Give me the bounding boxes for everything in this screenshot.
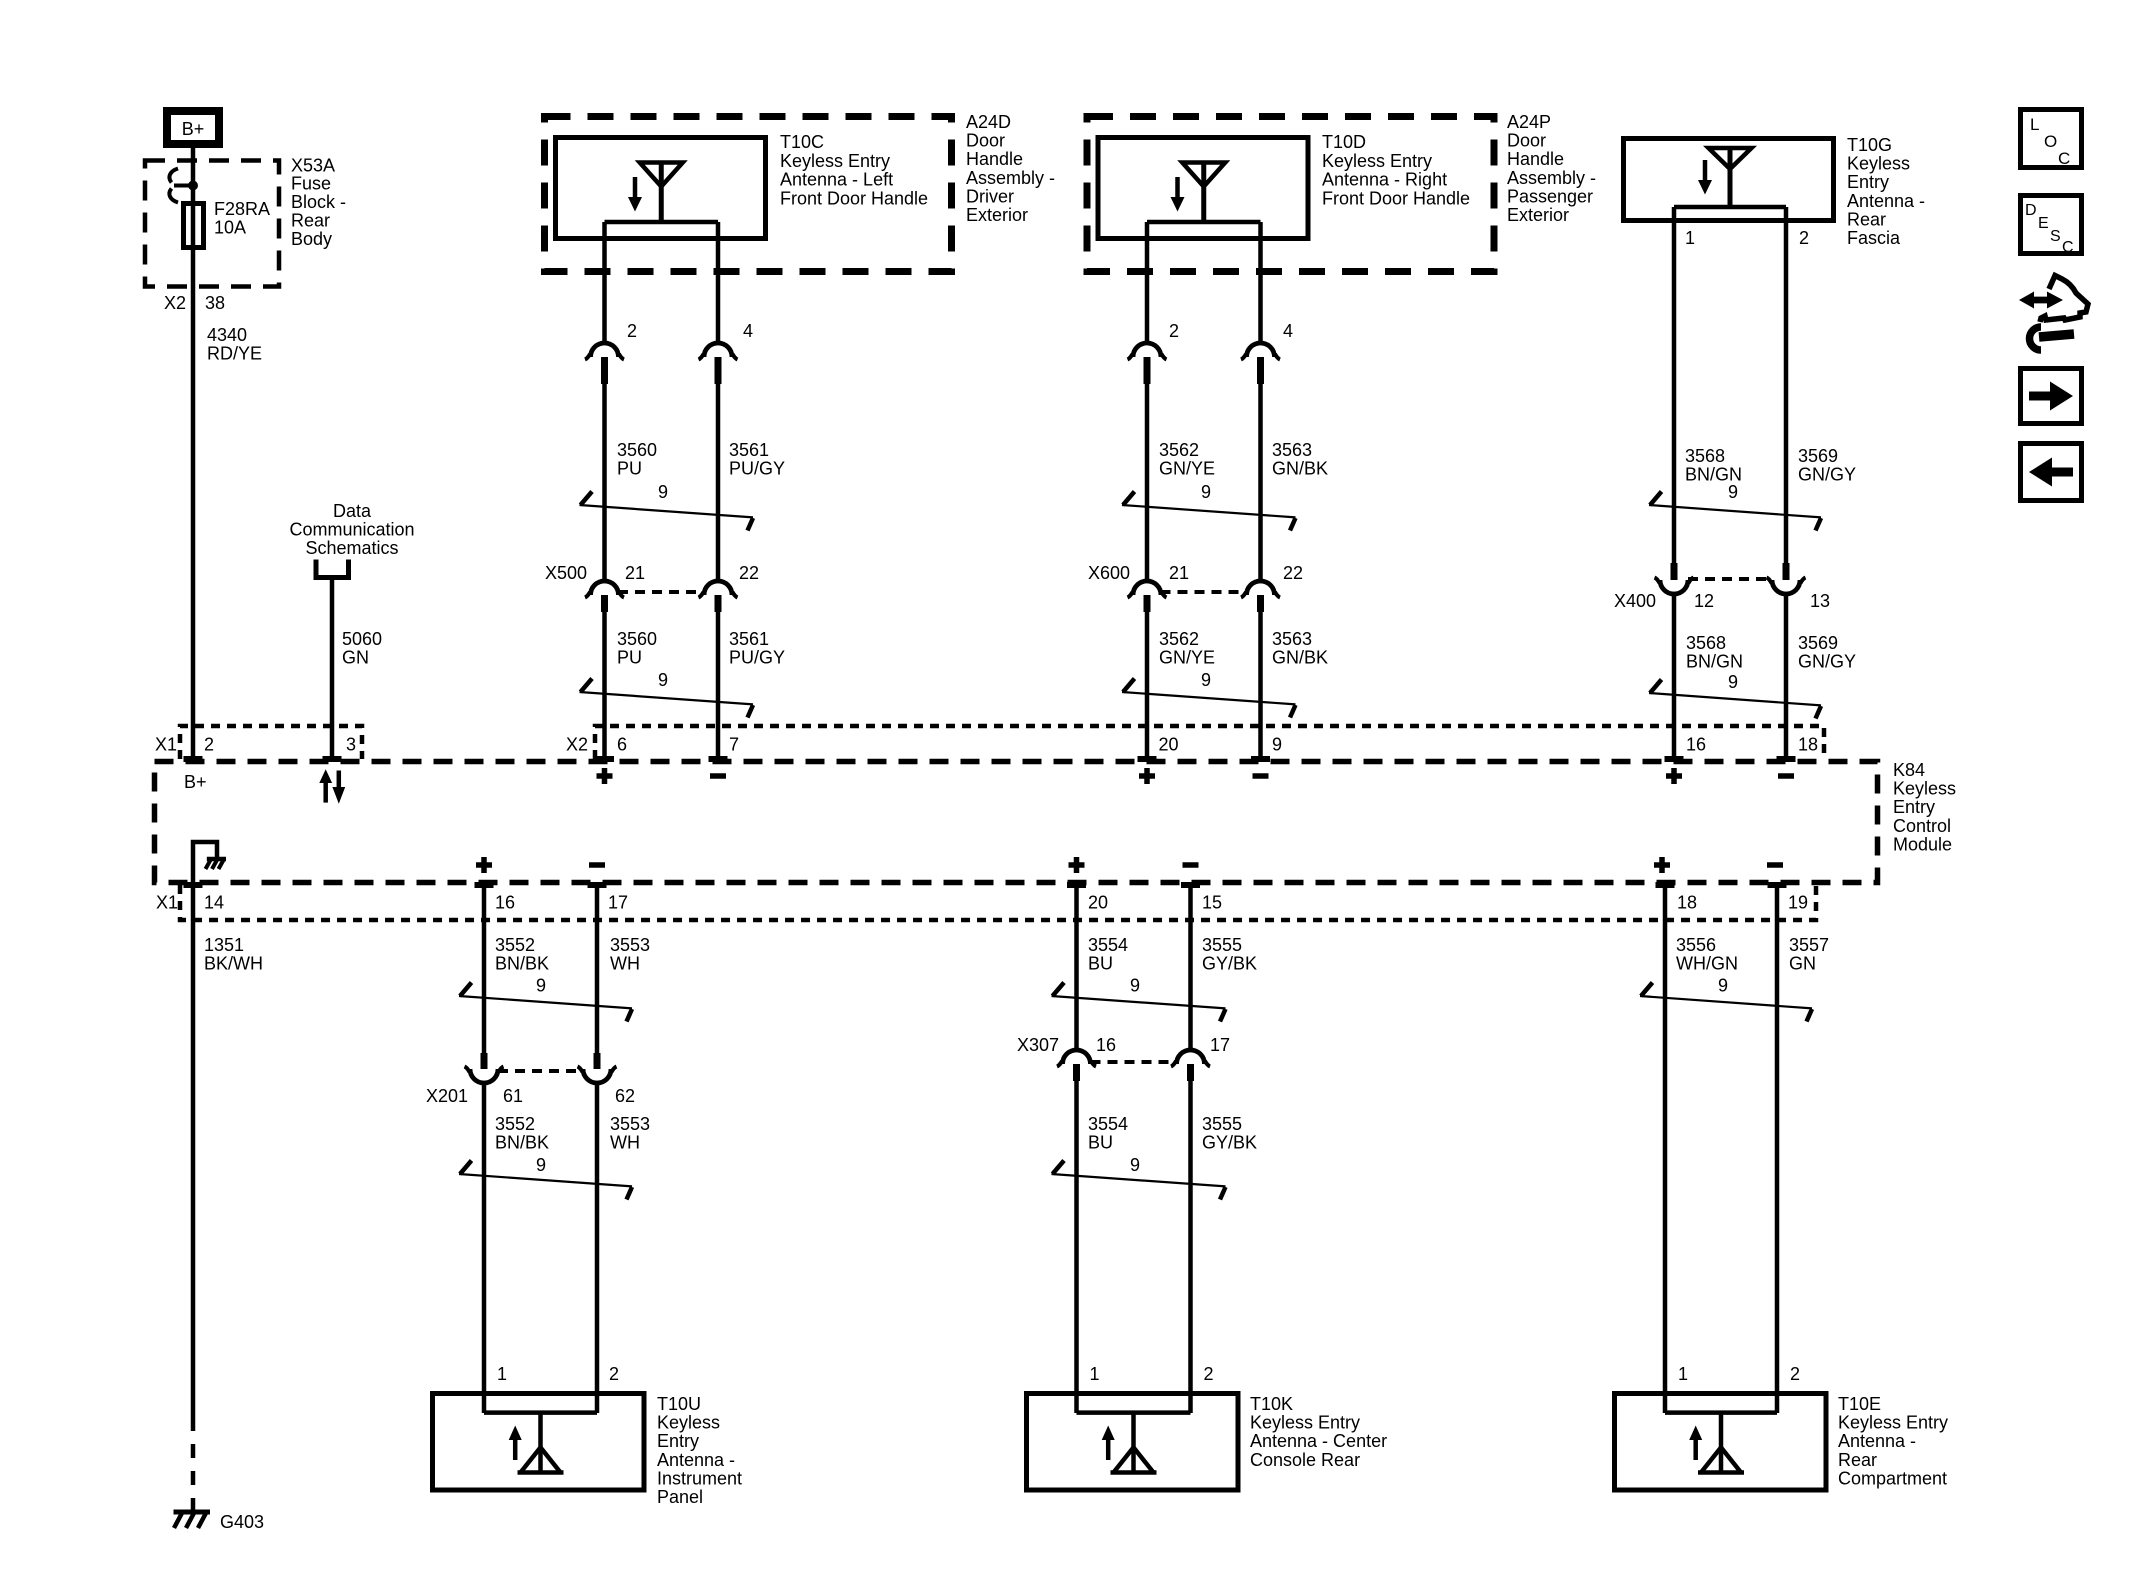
- wire 1351 BK/WH from module pin 14: [193, 885, 263, 1512]
- svg-text:22: 22: [739, 563, 759, 583]
- svg-text:T10E: T10E: [1838, 1394, 1881, 1414]
- svg-text:3555: 3555: [1202, 1114, 1242, 1134]
- svg-text:Communication: Communication: [289, 520, 414, 540]
- keyless entry antenna T10K center console rear: [1027, 1394, 1388, 1491]
- battery feed B+: [167, 111, 219, 144]
- door handle assembly A24P dashed box: [1087, 112, 1596, 272]
- svg-text:62: 62: [615, 1086, 635, 1106]
- svg-text:1: 1: [1678, 1364, 1688, 1384]
- T10K pin labels 1 and 2: [1090, 1364, 1214, 1384]
- svg-text:Console Rear: Console Rear: [1250, 1450, 1360, 1470]
- wire from T10C pin 4: [716, 222, 721, 343]
- wire 3560 PU upper segment: [605, 384, 658, 581]
- svg-text:3568: 3568: [1685, 446, 1725, 466]
- svg-text:17: 17: [608, 893, 628, 913]
- svg-text:21: 21: [625, 563, 645, 583]
- svg-text:9: 9: [1728, 482, 1738, 502]
- module antenna driver polarity labels top row: [597, 768, 1795, 784]
- svg-text:Block -: Block -: [291, 192, 346, 212]
- svg-text:GN/GY: GN/GY: [1798, 652, 1856, 672]
- svg-text:1: 1: [497, 1364, 507, 1384]
- twisted pair marker upper T10K pair: [1052, 975, 1226, 1021]
- svg-text:3560: 3560: [617, 629, 657, 649]
- T10D pin labels 2 and 4: [1169, 321, 1293, 341]
- svg-text:PU/GY: PU/GY: [729, 459, 785, 479]
- svg-text:Front Door Handle: Front Door Handle: [1322, 188, 1470, 208]
- twisted pair marker lower T10U pair: [459, 1155, 632, 1200]
- svg-text:Fuse: Fuse: [291, 174, 331, 194]
- svg-text:Keyless Entry: Keyless Entry: [1250, 1413, 1360, 1433]
- svg-text:14: 14: [204, 893, 224, 913]
- svg-text:9: 9: [1130, 975, 1140, 995]
- svg-text:Front Door Handle: Front Door Handle: [780, 188, 928, 208]
- module internal ground path: [193, 842, 226, 885]
- svg-text:7: 7: [729, 735, 739, 755]
- module connector X2 top strip: [566, 726, 1824, 759]
- svg-text:Assembly -: Assembly -: [966, 168, 1055, 188]
- svg-text:Passenger: Passenger: [1507, 186, 1593, 206]
- svg-text:3: 3: [346, 735, 356, 755]
- svg-text:3555: 3555: [1202, 935, 1242, 955]
- twisted pair marker upper T10G: [1649, 482, 1821, 531]
- svg-text:PU: PU: [617, 459, 642, 479]
- svg-text:X500: X500: [545, 563, 587, 583]
- module internal B+ label: [184, 772, 207, 792]
- svg-text:GN/GY: GN/GY: [1798, 465, 1856, 485]
- svg-text:9: 9: [536, 1155, 546, 1175]
- svg-text:Antenna - Left: Antenna - Left: [780, 170, 893, 190]
- svg-text:PU: PU: [617, 648, 642, 668]
- svg-text:20: 20: [1159, 735, 1179, 755]
- svg-text:2: 2: [204, 735, 214, 755]
- svg-text:BK/WH: BK/WH: [204, 954, 263, 974]
- svg-text:BN/BK: BN/BK: [495, 954, 549, 974]
- svg-text:Door: Door: [1507, 131, 1546, 151]
- svg-text:9: 9: [1201, 482, 1211, 502]
- svg-text:3561: 3561: [729, 440, 769, 460]
- fuse block X53A dashed box: [145, 155, 346, 286]
- svg-text:9: 9: [658, 482, 668, 502]
- T10G pin labels 1 and 2: [1685, 228, 1809, 248]
- svg-text:Rear: Rear: [1847, 209, 1886, 229]
- svg-text:Rear: Rear: [1838, 1450, 1877, 1470]
- sidebar icon back arrow: [2021, 444, 2082, 501]
- wire 3556 WH/GN from module pin 18: [1665, 885, 1738, 1413]
- svg-text:Handle: Handle: [966, 149, 1023, 169]
- sidebar icon LOC: [2021, 110, 2082, 169]
- wire 3554 BU upper segment from module pin 20: [1077, 885, 1129, 1052]
- svg-text:D: D: [2025, 202, 2037, 219]
- wire 3561 PU/GY upper segment: [718, 384, 785, 581]
- svg-text:Antenna -: Antenna -: [657, 1450, 735, 1470]
- svg-text:22: 22: [1283, 563, 1303, 583]
- T10U pin labels 1 and 2: [497, 1364, 619, 1384]
- svg-text:Fascia: Fascia: [1847, 228, 1901, 248]
- svg-text:2: 2: [1169, 321, 1179, 341]
- svg-text:X1: X1: [156, 893, 178, 913]
- svg-text:C: C: [2062, 239, 2074, 256]
- svg-text:F28RA: F28RA: [214, 199, 270, 219]
- wire 3557 GN from module pin 19: [1777, 885, 1829, 1413]
- twisted pair marker lower T10D: [1122, 670, 1296, 718]
- svg-text:9: 9: [1201, 670, 1211, 690]
- svg-text:3552: 3552: [495, 1114, 535, 1134]
- svg-text:PU/GY: PU/GY: [729, 648, 785, 668]
- svg-text:3562: 3562: [1159, 440, 1199, 460]
- inline connector X400 pins 12 13: [1614, 563, 1830, 611]
- svg-text:X2: X2: [164, 293, 186, 313]
- svg-text:3553: 3553: [610, 935, 650, 955]
- twisted pair marker T10E pair: [1640, 975, 1812, 1021]
- wire 3563 GN/BK lower segment to module pin 9: [1261, 612, 1329, 759]
- svg-text:19: 19: [1788, 893, 1808, 913]
- svg-text:Entry: Entry: [1847, 172, 1889, 192]
- svg-text:Keyless Entry: Keyless Entry: [1322, 151, 1432, 171]
- sidebar icon DESC: [2021, 196, 2082, 257]
- svg-text:2: 2: [1799, 228, 1809, 248]
- svg-text:GN/BK: GN/BK: [1272, 648, 1328, 668]
- keyless entry antenna T10U instrument panel: [433, 1394, 743, 1508]
- svg-text:Body: Body: [291, 229, 332, 249]
- wire 3562 GN/YE lower segment to module pin 20: [1147, 612, 1215, 759]
- svg-text:3562: 3562: [1159, 629, 1199, 649]
- svg-text:Instrument: Instrument: [657, 1468, 742, 1488]
- keyless entry antenna T10E rear compartment: [1615, 1394, 1949, 1491]
- inline connector X600 pins 21 22: [1088, 563, 1303, 612]
- T10E pin labels 1 and 2: [1678, 1364, 1800, 1384]
- svg-text:RD/YE: RD/YE: [207, 344, 262, 364]
- svg-text:G403: G403: [220, 1512, 264, 1532]
- svg-text:3556: 3556: [1676, 935, 1716, 955]
- svg-text:16: 16: [1096, 1035, 1116, 1055]
- svg-text:3552: 3552: [495, 935, 535, 955]
- svg-text:WH: WH: [610, 954, 640, 974]
- svg-text:3561: 3561: [729, 629, 769, 649]
- svg-text:A24P: A24P: [1507, 112, 1551, 132]
- svg-text:BN/GN: BN/GN: [1686, 652, 1743, 672]
- wire 3555 GY/BK lower segment: [1191, 1081, 1258, 1413]
- svg-text:Module: Module: [1893, 834, 1952, 854]
- svg-text:21: 21: [1169, 563, 1189, 583]
- module pin terminal feet on boundaries: [184, 759, 1796, 885]
- svg-text:GN/YE: GN/YE: [1159, 648, 1215, 668]
- svg-text:Antenna - Center: Antenna - Center: [1250, 1431, 1387, 1451]
- T10C pin 2 terminal: [585, 343, 624, 384]
- svg-text:BU: BU: [1088, 1133, 1113, 1153]
- svg-text:4340: 4340: [207, 325, 247, 345]
- svg-text:3569: 3569: [1798, 446, 1838, 466]
- twisted pair marker lower T10C: [580, 670, 754, 718]
- keyless entry antenna T10D: [1098, 132, 1470, 238]
- svg-text:3569: 3569: [1798, 633, 1838, 653]
- svg-text:B+: B+: [182, 119, 205, 139]
- svg-text:9: 9: [536, 975, 546, 995]
- svg-text:GN: GN: [342, 648, 369, 668]
- svg-text:Keyless: Keyless: [1893, 779, 1956, 799]
- svg-text:X1: X1: [155, 735, 177, 755]
- svg-text:O: O: [2044, 132, 2057, 151]
- svg-text:13: 13: [1810, 591, 1830, 611]
- svg-text:17: 17: [1210, 1035, 1230, 1055]
- svg-text:B+: B+: [184, 772, 207, 792]
- svg-text:BN/BK: BN/BK: [495, 1133, 549, 1153]
- wire 3560 PU lower segment to module pin 6: [605, 612, 658, 759]
- svg-text:9: 9: [1272, 735, 1282, 755]
- svg-text:X53A: X53A: [291, 155, 335, 175]
- wire 3554 BU lower segment: [1077, 1081, 1129, 1413]
- svg-text:S: S: [2050, 228, 2061, 245]
- twisted pair marker lower T10K pair: [1052, 1155, 1226, 1200]
- inline connector X201 pins 61 62: [426, 1053, 635, 1106]
- svg-text:WH: WH: [610, 1133, 640, 1153]
- wire 3562 GN/YE upper segment: [1147, 384, 1215, 581]
- svg-text:Exterior: Exterior: [1507, 205, 1569, 225]
- svg-text:Assembly -: Assembly -: [1507, 168, 1596, 188]
- svg-text:T10U: T10U: [657, 1394, 701, 1414]
- twisted pair marker lower T10G: [1649, 672, 1821, 719]
- svg-text:GY/BK: GY/BK: [1202, 1133, 1257, 1153]
- wire from T10D pin 4: [1258, 222, 1263, 343]
- svg-text:Antenna -: Antenna -: [1838, 1431, 1916, 1451]
- svg-text:Entry: Entry: [1893, 797, 1935, 817]
- svg-text:Antenna - Right: Antenna - Right: [1322, 170, 1447, 190]
- svg-text:Rear: Rear: [291, 211, 330, 231]
- svg-text:K84: K84: [1893, 760, 1925, 780]
- svg-text:3563: 3563: [1272, 629, 1312, 649]
- wire 5060 GN to module pin 3: [332, 578, 382, 760]
- svg-text:Keyless Entry: Keyless Entry: [780, 151, 890, 171]
- wire 3552 BN/BK upper segment from module pin 16: [484, 885, 549, 1053]
- svg-text:T10D: T10D: [1322, 132, 1366, 152]
- svg-text:16: 16: [495, 893, 515, 913]
- svg-text:E: E: [2038, 215, 2049, 232]
- svg-text:15: 15: [1202, 893, 1222, 913]
- svg-text:3563: 3563: [1272, 440, 1312, 460]
- svg-text:T10C: T10C: [780, 132, 824, 152]
- module connector X1 bottom strip: [156, 885, 1816, 920]
- svg-text:9: 9: [1718, 975, 1728, 995]
- twisted pair marker upper T10D: [1122, 482, 1296, 531]
- wire label 4340 RD/YE: [207, 325, 262, 364]
- fuse block connector X2 pin 38 labels: [164, 293, 225, 313]
- svg-text:GN/BK: GN/BK: [1272, 459, 1328, 479]
- svg-text:Panel: Panel: [657, 1487, 703, 1507]
- keyless entry antenna T10C: [556, 132, 929, 238]
- svg-text:Driver: Driver: [966, 186, 1014, 206]
- svg-text:C: C: [2058, 149, 2070, 168]
- svg-text:1: 1: [1090, 1364, 1100, 1384]
- svg-text:4: 4: [1283, 321, 1293, 341]
- wire 4340 RD/YE from B+ through fuse to module pin 2: [191, 148, 196, 759]
- wire 3563 GN/BK upper segment: [1261, 384, 1329, 581]
- svg-text:Data: Data: [333, 501, 372, 521]
- inline connector X500 pins 21 22: [545, 563, 759, 612]
- wire 3561 PU/GY lower segment to module pin 7: [718, 612, 785, 759]
- svg-text:9: 9: [1728, 672, 1738, 692]
- module serial data arrows: [319, 769, 345, 804]
- svg-text:20: 20: [1088, 893, 1108, 913]
- keyless entry control module K84 dashed box: [155, 760, 1957, 883]
- svg-text:WH/GN: WH/GN: [1676, 954, 1738, 974]
- svg-text:3568: 3568: [1686, 633, 1726, 653]
- wire 3552 BN/BK lower segment: [484, 1084, 549, 1413]
- svg-text:X2: X2: [566, 735, 588, 755]
- sidebar icon vehicle with arrows and wrench: [2019, 276, 2088, 351]
- svg-text:Schematics: Schematics: [305, 538, 398, 558]
- svg-text:Entry: Entry: [657, 1431, 699, 1451]
- svg-text:X400: X400: [1614, 591, 1656, 611]
- wire from T10D pin 2: [1145, 222, 1150, 343]
- svg-text:18: 18: [1798, 735, 1818, 755]
- svg-text:3554: 3554: [1088, 935, 1128, 955]
- svg-text:Compartment: Compartment: [1838, 1468, 1947, 1488]
- svg-text:Door: Door: [966, 131, 1005, 151]
- svg-text:38: 38: [205, 293, 225, 313]
- svg-text:1: 1: [1685, 228, 1695, 248]
- svg-text:4: 4: [743, 321, 753, 341]
- svg-text:GN: GN: [1789, 954, 1816, 974]
- svg-text:Control: Control: [1893, 816, 1951, 836]
- T10D pin 4 terminal: [1241, 343, 1280, 384]
- wire 3553 WH upper segment from module pin 17: [597, 885, 650, 1053]
- wire 3553 WH lower segment: [597, 1084, 650, 1413]
- svg-text:Keyless Entry: Keyless Entry: [1838, 1413, 1948, 1433]
- ground G403: [174, 1512, 265, 1532]
- svg-text:A24D: A24D: [966, 112, 1011, 132]
- svg-text:GY/BK: GY/BK: [1202, 954, 1257, 974]
- wire 3569 GN/GY lower segment to module pin 18: [1786, 594, 1856, 759]
- svg-text:1351: 1351: [204, 935, 244, 955]
- T10C pin labels 2 and 4: [627, 321, 753, 341]
- door handle assembly A24D dashed box: [545, 112, 1056, 272]
- wire 3569 GN/GY upper segment: [1786, 207, 1856, 563]
- svg-text:3553: 3553: [610, 1114, 650, 1134]
- T10D pin 2 terminal: [1128, 343, 1167, 384]
- svg-text:BU: BU: [1088, 954, 1113, 974]
- svg-text:2: 2: [1790, 1364, 1800, 1384]
- svg-text:Exterior: Exterior: [966, 205, 1028, 225]
- svg-text:T10K: T10K: [1250, 1394, 1293, 1414]
- svg-text:5060: 5060: [342, 629, 382, 649]
- svg-text:X307: X307: [1017, 1035, 1059, 1055]
- sidebar icon forward arrow: [2021, 369, 2082, 424]
- T10C pin 4 terminal: [699, 343, 738, 384]
- svg-text:6: 6: [617, 735, 627, 755]
- svg-text:18: 18: [1677, 893, 1697, 913]
- svg-text:2: 2: [1204, 1364, 1214, 1384]
- svg-text:3554: 3554: [1088, 1114, 1128, 1134]
- data communication schematics off-page reference: [289, 501, 414, 578]
- svg-text:9: 9: [1130, 1155, 1140, 1175]
- svg-text:3557: 3557: [1789, 935, 1829, 955]
- svg-text:2: 2: [627, 321, 637, 341]
- fuse F28RA 10A: [184, 199, 271, 248]
- twisted pair marker upper T10C: [580, 482, 754, 531]
- svg-text:3560: 3560: [617, 440, 657, 460]
- svg-text:T10G: T10G: [1847, 135, 1892, 155]
- svg-text:X201: X201: [426, 1086, 468, 1106]
- svg-text:Handle: Handle: [1507, 149, 1564, 169]
- twisted pair marker upper T10U pair: [459, 975, 632, 1021]
- svg-text:Keyless: Keyless: [1847, 154, 1910, 174]
- svg-text:61: 61: [503, 1086, 523, 1106]
- inline connector X307 pins 16 17: [1017, 1035, 1230, 1081]
- svg-text:X600: X600: [1088, 563, 1130, 583]
- svg-text:GN/YE: GN/YE: [1159, 459, 1215, 479]
- wire 3568 BN/GN upper segment: [1674, 207, 1742, 563]
- wire from T10C pin 2: [602, 222, 607, 343]
- module antenna driver polarity labels bottom row: [476, 857, 1783, 873]
- keyless entry antenna T10G rear fascia: [1624, 135, 1926, 248]
- wire 3568 BN/GN lower segment to module pin 16: [1674, 594, 1743, 759]
- svg-text:12: 12: [1694, 591, 1714, 611]
- svg-text:Antenna -: Antenna -: [1847, 191, 1925, 211]
- svg-text:16: 16: [1686, 735, 1706, 755]
- module connector X1 top strip: [155, 726, 362, 759]
- wire 3555 GY/BK upper segment from module pin 15: [1191, 885, 1258, 1052]
- svg-text:9: 9: [658, 670, 668, 690]
- svg-text:10A: 10A: [214, 218, 246, 238]
- svg-text:Keyless: Keyless: [657, 1413, 720, 1433]
- svg-text:L: L: [2030, 115, 2039, 134]
- svg-text:2: 2: [609, 1364, 619, 1384]
- junction node and clip terminal inside fuse block: [169, 169, 198, 203]
